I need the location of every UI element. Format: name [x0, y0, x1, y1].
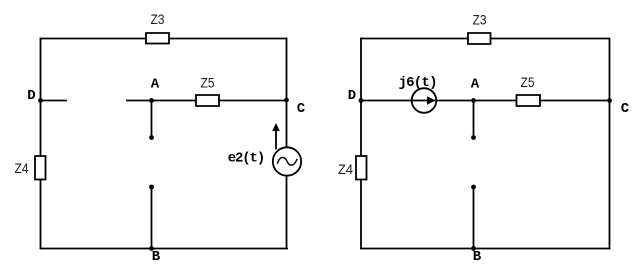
wire: middle row from open gap to node A (left circuit): [127, 99, 152, 101]
wire: right circuit bottom side, node B to bottom-right corner: [473, 248, 609, 250]
wire: left circuit right side, source e2 down to bottom corner: [285, 176, 287, 249]
svg-text:B: B: [152, 249, 161, 265]
wire: middle row, node D through current source to node A (right circuit): [361, 100, 474, 102]
svg-text:B: B: [473, 249, 482, 265]
wire: right circuit left side, top corner to node D: [360, 39, 362, 101]
wire: branch from node A downward (right circuit): [473, 101, 475, 136]
wire: Z5 to node C (right circuit): [540, 100, 610, 102]
wire: left circuit top side, Z3 to top-right corner: [169, 37, 287, 39]
node D (right circuit) junction dot: [359, 98, 364, 103]
junction dot: end of branch below A (left circuit): [149, 135, 154, 140]
wire: node A to Z5 (right circuit): [474, 100, 517, 102]
node D (left circuit) junction dot: [38, 98, 43, 103]
node C (left circuit) junction dot: [284, 98, 289, 103]
wire: left circuit bottom side, node B to bottom-right corner: [151, 247, 287, 249]
svg-text:Z5: Z5: [521, 75, 535, 90]
impedance Z4 (right circuit): [356, 156, 367, 180]
wire: Z5 to node C (left circuit): [219, 99, 287, 101]
wire: left circuit bottom side, corner to node B: [40, 247, 151, 249]
wire: right circuit bottom side, corner to node B: [361, 248, 474, 250]
wire: left circuit left side, node D to Z4: [39, 100, 41, 156]
svg-text:C: C: [621, 101, 630, 117]
wire: lower branch up from node B (left circuit): [150, 187, 152, 249]
wire: node A to Z5 (left circuit): [152, 99, 197, 101]
svg-text:Z3: Z3: [473, 13, 487, 28]
wire: left circuit right side, node C down to source e2: [285, 100, 287, 148]
svg-text:A: A: [471, 76, 480, 92]
wire: right circuit left side, Z4 to bottom corner: [360, 180, 362, 249]
wire: right circuit left side, node D to Z4: [360, 100, 362, 156]
wire: right circuit top side, Z3 to top-right corner: [491, 38, 610, 40]
node C (right circuit) junction dot: [607, 98, 612, 103]
impedance Z3 (left circuit): [146, 33, 169, 44]
wire: left circuit top side, corner to Z3: [41, 37, 147, 39]
wire: left circuit right side, top corner down to node C: [286, 38, 288, 100]
svg-text:D: D: [27, 88, 35, 104]
node B (right circuit) junction dot: [471, 246, 476, 251]
svg-text:A: A: [151, 77, 160, 93]
svg-text:j6(t): j6(t): [399, 75, 438, 91]
node B (left circuit) junction dot: [149, 246, 154, 251]
impedance Z5 (left circuit): [196, 95, 219, 106]
svg-text:Z3: Z3: [151, 12, 165, 27]
wire: branch from node A downward (left circuit): [151, 100, 153, 135]
svg-text:e2(t): e2(t): [228, 150, 266, 166]
impedance Z5 (right circuit): [517, 95, 541, 106]
wire: left circuit left side, top corner to node D: [40, 38, 42, 100]
svg-text:D: D: [348, 88, 356, 104]
node A (right circuit) junction dot: [471, 98, 476, 103]
voltage source e2(t) sine symbol: [277, 158, 296, 166]
arrow: reference direction of e2(t): [275, 130, 277, 149]
impedance Z3 (right circuit): [468, 33, 491, 44]
junction dot: top of branch above B (right circuit): [471, 185, 476, 190]
wire: right circuit top side, corner to Z3: [361, 38, 468, 40]
svg-text:Z4: Z4: [338, 162, 353, 177]
svg-text:Z4: Z4: [14, 161, 28, 176]
wire: right circuit right side, node C to bottom corner: [608, 101, 610, 249]
impedance Z4 (left circuit): [35, 156, 46, 180]
wire: stub to the right of node D (open branch, left circuit): [41, 99, 66, 101]
svg-text:C: C: [297, 101, 306, 117]
arrowhead of current source j6(t): [427, 96, 436, 105]
junction dot: end of branch below A (right circuit): [471, 135, 476, 140]
wire: right circuit right side, top corner to node C: [609, 39, 611, 101]
svg-text:Z5: Z5: [201, 75, 215, 90]
wire: lower branch up from node B (right circuit): [472, 187, 474, 249]
wire: left circuit left side, Z4 to bottom corner: [39, 179, 41, 248]
arrowhead of e2(t) reference arrow: [272, 123, 280, 131]
junction dot: top of branch above B (left circuit): [149, 185, 154, 190]
node A (left circuit) junction dot: [149, 98, 154, 103]
voltage source e2(t) circle: [273, 147, 301, 175]
current source j6(t) circle: [412, 88, 437, 113]
